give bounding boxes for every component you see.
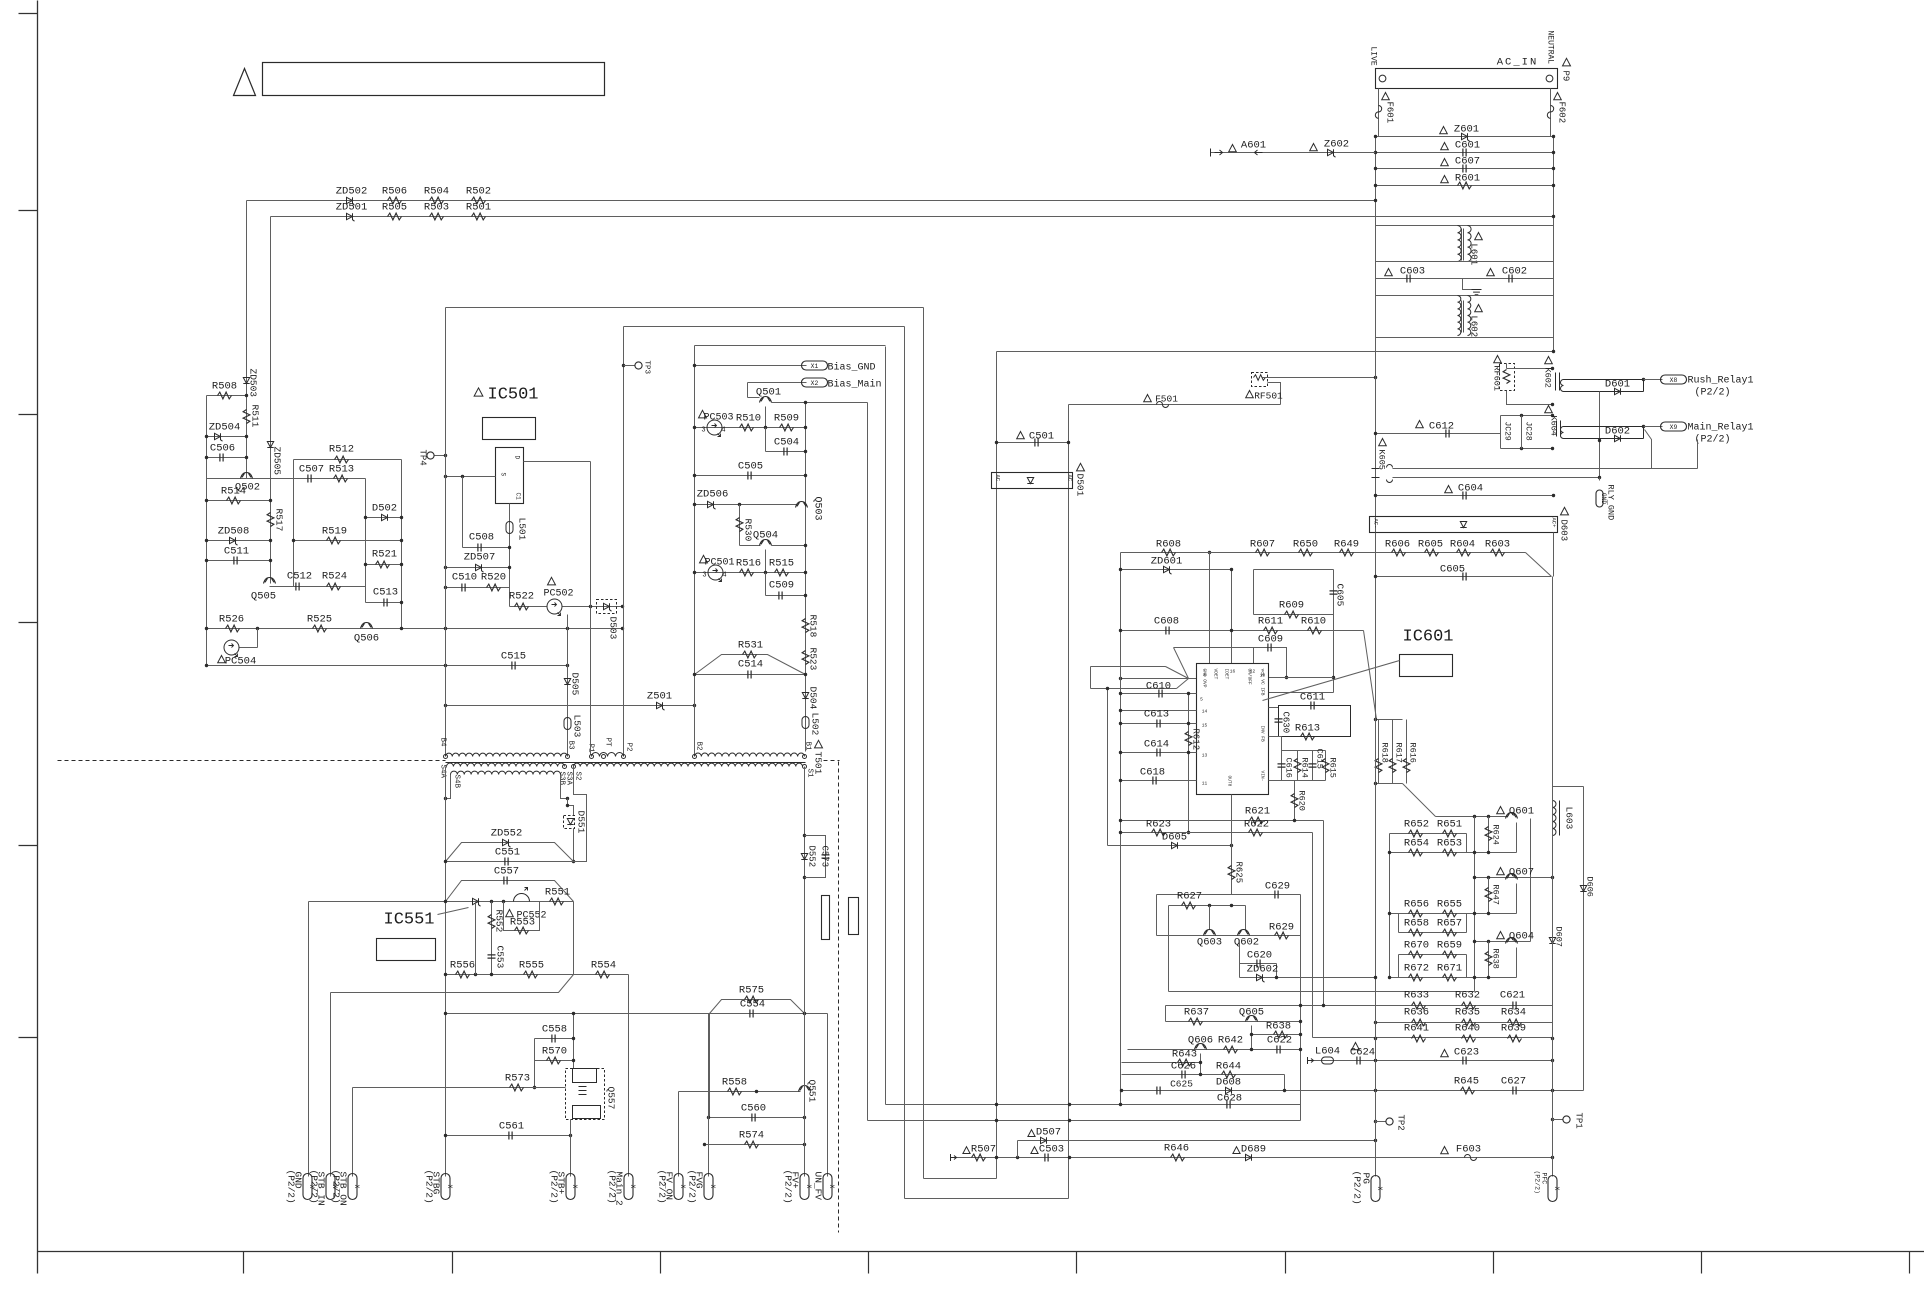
wire R508 row	[207, 395, 247, 397]
junction	[707, 1116, 710, 1119]
resistor R615	[1322, 759, 1329, 773]
resistor R632	[1462, 1002, 1476, 1009]
junction	[1187, 692, 1190, 695]
diode D608	[1226, 1087, 1232, 1093]
wire D608 R645 C627 row	[1121, 1090, 1584, 1092]
pin circle	[803, 765, 807, 769]
capacitor C614	[1157, 749, 1160, 757]
note box	[263, 63, 605, 96]
junction	[1187, 831, 1190, 834]
svg-text:C510: C510	[452, 572, 477, 584]
svg-text:C503: C503	[1039, 1144, 1064, 1156]
diode D601	[1615, 388, 1621, 394]
junction	[764, 426, 767, 429]
zener ZD504	[215, 433, 223, 441]
capacitor C629	[1275, 891, 1278, 899]
svg-text:R639: R639	[1501, 1023, 1526, 1035]
capacitor C604	[1463, 492, 1466, 500]
svg-text:(P2/2): (P2/2)	[1695, 387, 1731, 399]
svg-text:C613: C613	[1144, 709, 1169, 721]
resistor R647	[1485, 888, 1492, 902]
svg-text:R647: R647	[1491, 885, 1501, 905]
transistor Q605	[1246, 1016, 1258, 1022]
svg-text:R513: R513	[329, 464, 354, 476]
svg-text:R502: R502	[466, 186, 491, 198]
winding T501 primary P1-P2	[592, 753, 624, 757]
transistor Q606	[1195, 1044, 1207, 1050]
wire	[1375, 262, 1377, 296]
test point TP4	[427, 452, 434, 459]
transistor Q601	[1506, 813, 1518, 819]
resistor R516	[740, 569, 754, 576]
junction	[1374, 1021, 1377, 1024]
svg-text:R612: R612	[1191, 729, 1201, 751]
capacitor C573	[822, 855, 830, 858]
wire ZD504 row	[207, 436, 247, 438]
svg-text:R530: R530	[743, 519, 754, 542]
wire	[1553, 338, 1555, 352]
wire C505 row	[695, 475, 806, 477]
capacitor C505	[748, 472, 751, 480]
junction	[205, 627, 208, 630]
wire R638 row	[1252, 1034, 1301, 1036]
resistor R511	[243, 410, 250, 424]
resistor R607	[1256, 549, 1270, 556]
wire Q606 emitter	[1200, 1054, 1202, 1075]
wire K605 top row	[1393, 468, 1698, 470]
junction	[1374, 718, 1377, 721]
L602 core	[1461, 301, 1463, 333]
svg-text:R633: R633	[1404, 990, 1429, 1002]
capacitor C501	[1035, 439, 1038, 447]
svg-text:C612: C612	[1429, 421, 1454, 433]
capacitor C626	[1182, 1071, 1185, 1079]
wire R530 branch	[739, 505, 741, 534]
wire bus x996	[996, 352, 998, 1179]
wire row y1198	[905, 1198, 1069, 1200]
capacitor C554	[750, 1010, 753, 1018]
svg-text:R611: R611	[1258, 616, 1283, 628]
wire ZD503 column	[246, 396, 248, 479]
resistor R649	[1340, 549, 1354, 556]
svg-text:ZD506: ZD506	[697, 489, 729, 501]
junction	[1119, 677, 1122, 680]
resistor R575	[745, 996, 759, 1003]
wire C573 loop	[805, 836, 826, 878]
diode D551	[567, 819, 573, 825]
svg-text:(P2/2): (P2/2)	[1695, 434, 1731, 446]
wire Main_2 column	[628, 975, 630, 1177]
resistor R642	[1224, 1046, 1238, 1053]
warning triangle Q601	[1497, 807, 1505, 814]
svg-text:12: 12	[1250, 669, 1256, 675]
wire R551 row	[309, 901, 574, 903]
svg-text:Bias_Main: Bias_Main	[828, 379, 882, 391]
svg-text:VDET: VDET	[1213, 669, 1219, 680]
wire C603 C602 row	[1376, 278, 1554, 280]
wire FVG column	[708, 1118, 710, 1177]
svg-text:Q506: Q506	[354, 633, 379, 645]
svg-text:Q605: Q605	[1239, 1007, 1264, 1019]
junction	[1119, 568, 1122, 571]
wire FV_ON column	[678, 1092, 680, 1177]
wire ZD601 to chip	[1231, 570, 1233, 664]
wire x1323	[1323, 821, 1325, 1006]
svg-text:R672: R672	[1404, 963, 1429, 975]
capacitor C503	[1045, 1154, 1048, 1162]
wire C561 row	[446, 1135, 571, 1137]
svg-text:L604: L604	[1315, 1046, 1340, 1058]
svg-text:Q504: Q504	[753, 530, 778, 542]
zener ZD505	[267, 442, 273, 448]
wire Q606 row	[1128, 1049, 1301, 1051]
wire C510 R520 row	[446, 587, 510, 589]
svg-text:R608: R608	[1156, 539, 1181, 551]
svg-text:ZD602: ZD602	[1247, 964, 1279, 976]
junction	[804, 426, 807, 429]
fuse F501	[1157, 402, 1169, 408]
svg-text:4: 4	[721, 427, 725, 435]
wire OUT column	[1231, 795, 1233, 895]
junction	[1551, 414, 1554, 417]
wire C511 row	[207, 560, 271, 562]
border tick left	[19, 622, 38, 624]
resistor R558	[728, 1088, 742, 1095]
svg-text:R519: R519	[322, 526, 347, 538]
winding L601 a	[1458, 226, 1462, 262]
wire bus x1068	[1068, 405, 1070, 1199]
wire C501 row	[997, 442, 1069, 444]
wire	[401, 460, 403, 629]
junction	[1388, 912, 1391, 915]
svg-text:C624: C624	[1350, 1047, 1375, 1059]
wire R672 row	[1390, 977, 1517, 979]
svg-text:X: X	[629, 1185, 636, 1189]
svg-text:Q604: Q604	[1509, 931, 1534, 943]
wire bus x1583	[1583, 787, 1585, 1091]
inductor L501	[506, 522, 513, 534]
svg-text:R553: R553	[510, 917, 535, 929]
wire FVG upper column	[709, 1014, 711, 1118]
svg-text:R634: R634	[1501, 1007, 1526, 1019]
warning triangle T501	[815, 740, 823, 748]
warning triangle C601	[1441, 143, 1449, 150]
svg-text:D: D	[514, 456, 521, 460]
junction	[566, 627, 569, 630]
wire	[1553, 1119, 1563, 1121]
junction	[1283, 1089, 1286, 1092]
svg-text:K602: K602	[1543, 368, 1553, 388]
wire D602 to K605 row	[1645, 430, 1698, 469]
junction	[1250, 1033, 1253, 1036]
wire top link	[1553, 786, 1584, 788]
wire R652 row	[1390, 833, 1467, 835]
svg-text:R653: R653	[1437, 838, 1462, 850]
resistor R519	[327, 537, 341, 544]
wire F601 drop	[1378, 89, 1380, 137]
warning triangle D507	[1028, 1130, 1035, 1137]
svg-text:R509: R509	[774, 413, 799, 425]
wire S2 bypass	[574, 767, 587, 862]
wire C605 row	[1376, 576, 1552, 578]
ground	[1472, 290, 1482, 295]
svg-text:C506: C506	[210, 443, 235, 455]
funnel diag top	[1174, 648, 1189, 679]
wire	[573, 902, 575, 975]
svg-text:R551: R551	[545, 887, 570, 899]
warning triangle C604	[1445, 486, 1453, 493]
connector X2 Bias_Main	[802, 378, 828, 387]
resistor R605	[1425, 549, 1439, 556]
wire bus x1552	[1552, 577, 1554, 1177]
svg-text:C1: C1	[515, 493, 522, 501]
svg-text:R512: R512	[329, 444, 354, 456]
svg-text:X: X	[1376, 1187, 1383, 1191]
svg-text:R552: R552	[494, 910, 505, 933]
svg-text:Q601: Q601	[1509, 806, 1534, 818]
svg-text:X: X	[828, 1185, 835, 1189]
resistor R503	[430, 213, 444, 220]
wire R633 row	[1166, 1005, 1553, 1007]
svg-text:R618: R618	[1380, 743, 1390, 763]
svg-text:R655: R655	[1437, 899, 1462, 911]
wire vc row	[1269, 692, 1334, 694]
svg-text:OUT8: OUT8	[1227, 776, 1233, 787]
junction	[205, 435, 208, 438]
capacitor C508	[478, 544, 481, 552]
resistor R505	[388, 213, 402, 220]
junction	[1551, 1059, 1554, 1062]
wire	[1168, 906, 1170, 992]
svg-text:R523: R523	[808, 648, 819, 671]
svg-text:Bias_GND: Bias_GND	[828, 362, 876, 374]
wire	[1376, 1121, 1386, 1123]
junction	[566, 664, 569, 667]
wire STB_IN trace	[331, 975, 574, 993]
capacitor C506	[220, 454, 223, 462]
junction	[1374, 976, 1377, 979]
junction	[572, 860, 575, 863]
junction	[1551, 367, 1554, 370]
svg-text:R650: R650	[1293, 539, 1318, 551]
resistor R502	[472, 197, 486, 204]
wire R556 row	[446, 974, 574, 976]
wire R609 row	[1254, 614, 1334, 616]
wire R514 row	[207, 500, 271, 502]
wire	[747, 383, 749, 398]
resistor R656	[1409, 910, 1423, 917]
wire	[1239, 964, 1241, 978]
wire	[748, 397, 760, 399]
capacitor C623	[1463, 1057, 1466, 1065]
svg-text:C551: C551	[495, 847, 520, 859]
svg-text:F501: F501	[1155, 394, 1178, 405]
warning triangle L601	[1475, 233, 1483, 240]
capacitor C616	[1278, 764, 1286, 767]
svg-text:RLY_GND: RLY_GND	[1606, 485, 1616, 521]
svg-text:R518: R518	[808, 615, 819, 638]
warning triangle RF501	[1246, 391, 1254, 398]
connector RLY_GND	[1596, 490, 1603, 507]
diode D689	[1246, 1154, 1252, 1160]
winding T501 primary B2-B1	[694, 753, 804, 756]
warning triangle Q607	[1497, 868, 1505, 875]
junction	[693, 571, 696, 574]
wire C614 row	[1121, 752, 1197, 754]
svg-text:D601: D601	[1605, 379, 1630, 391]
callout line IC601	[1263, 661, 1400, 701]
svg-text:C514: C514	[738, 659, 763, 671]
test point TP1	[1563, 1116, 1570, 1123]
wire S3A to D551	[568, 799, 574, 816]
zener ZD552	[503, 839, 511, 847]
terminal R507 row	[951, 1154, 957, 1161]
wire ZD551 column	[475, 902, 477, 975]
wire R512 row	[294, 459, 402, 461]
wire	[1406, 720, 1408, 784]
svg-text:3: 3	[701, 427, 705, 435]
svg-text:R622: R622	[1244, 819, 1269, 831]
junction	[1299, 1033, 1302, 1036]
wire trio top	[1376, 719, 1403, 721]
pin circle live	[1379, 75, 1386, 82]
wire Q501 collector row	[772, 402, 868, 404]
svg-text:11: 11	[1202, 781, 1208, 787]
IC IC601 body	[1197, 664, 1269, 795]
wire choke bottom	[1376, 261, 1554, 263]
junction	[803, 1143, 806, 1146]
resistor R655	[1443, 910, 1457, 917]
resistor RF501 element	[1254, 375, 1266, 381]
svg-text:C558: C558	[542, 1024, 567, 1036]
resistor R573	[510, 1084, 524, 1091]
connector PFC	[1548, 1176, 1557, 1202]
wire	[1553, 262, 1555, 296]
junction	[1119, 819, 1122, 822]
junction	[1374, 1120, 1377, 1123]
wire	[1156, 895, 1158, 936]
svg-text:R615: R615	[1328, 758, 1338, 778]
svg-text:R531: R531	[738, 640, 763, 652]
junction	[1642, 378, 1645, 381]
capacitor C507	[308, 475, 311, 483]
capacitor C615	[1309, 764, 1317, 767]
svg-text:R646: R646	[1164, 1143, 1189, 1155]
capacitor C511	[234, 557, 237, 565]
junction	[1473, 876, 1476, 879]
wire x1333	[1333, 615, 1335, 693]
wire left rail	[1375, 137, 1377, 226]
wire collector bus x1530	[1530, 819, 1532, 942]
arrester A601	[1211, 149, 1263, 157]
svg-text:UN_FV: UN_FV	[813, 1172, 824, 1201]
photocoupler PC552 arc	[514, 888, 530, 902]
svg-text:JC28: JC28	[1524, 422, 1533, 441]
isolation dashed vertical	[838, 762, 840, 1233]
resistor R672	[1409, 974, 1423, 981]
svg-text:R658: R658	[1404, 918, 1429, 930]
wire F501 AC row	[1069, 404, 1281, 406]
warning triangle C612	[1416, 421, 1424, 428]
wire	[293, 460, 295, 587]
warning triangle C607	[1441, 159, 1449, 166]
wire lower box top	[1376, 337, 1554, 339]
junction	[1332, 676, 1335, 679]
svg-text:B3: B3	[567, 741, 575, 751]
svg-text:D504: D504	[808, 687, 819, 710]
resistor R620	[1291, 794, 1298, 808]
svg-text:AC: AC	[1067, 475, 1074, 482]
svg-text:R604: R604	[1450, 539, 1475, 551]
resistor R637	[1189, 1018, 1203, 1025]
junction	[693, 426, 696, 429]
wire C613 row	[1121, 723, 1197, 725]
bridge D603 box	[1370, 517, 1558, 533]
warning triangle F603	[1441, 1147, 1449, 1154]
junction	[804, 474, 807, 477]
junction	[569, 1134, 572, 1137]
wire	[1245, 906, 1247, 930]
junction	[621, 627, 624, 630]
wire ground stub	[1463, 279, 1473, 290]
svg-text:Q557: Q557	[606, 1087, 617, 1110]
junction	[205, 539, 208, 542]
capacitor C504	[784, 448, 787, 456]
resistor R552	[488, 915, 495, 929]
resistor R504	[430, 197, 444, 204]
junction	[444, 900, 447, 903]
svg-text:D605: D605	[1162, 832, 1187, 844]
border tick bottom	[660, 1252, 662, 1274]
wire x534 column	[534, 1039, 536, 1088]
svg-text:R601: R601	[1455, 173, 1480, 185]
border left line	[37, 1, 39, 1274]
junction	[1285, 676, 1288, 679]
resistor R601	[1458, 182, 1472, 189]
resistor R627	[1182, 902, 1196, 909]
border tick bottom	[243, 1252, 245, 1274]
junction	[1642, 425, 1645, 428]
wire Q501 emitter	[765, 407, 767, 428]
resistor R509	[780, 424, 794, 431]
svg-text:X: X	[353, 1185, 360, 1189]
svg-text:4: 4	[1203, 673, 1206, 679]
resistor R622	[1249, 829, 1263, 836]
svg-text:R507: R507	[971, 1144, 996, 1156]
svg-text:NEUTRAL: NEUTRAL	[1546, 31, 1555, 65]
junction	[1187, 751, 1190, 754]
warning triangle Z601	[1440, 127, 1448, 134]
junction	[803, 1116, 806, 1119]
wire STB_IN column	[330, 993, 332, 1177]
border tick left	[19, 13, 38, 15]
svg-text:R638: R638	[1266, 1021, 1291, 1033]
junction	[205, 456, 208, 459]
resistor R621	[1250, 817, 1264, 824]
warning triangle A601	[1229, 145, 1237, 152]
svg-text:R640: R640	[1455, 1023, 1480, 1035]
inductor L503	[564, 718, 571, 730]
wire	[240, 647, 258, 649]
svg-text:C614: C614	[1144, 739, 1169, 751]
junction	[1374, 184, 1377, 187]
junction	[1552, 167, 1555, 170]
wire	[1521, 416, 1523, 449]
junction	[1374, 494, 1377, 497]
svg-text:S3B: S3B	[558, 772, 566, 786]
wire	[1506, 364, 1508, 369]
svg-text:D602: D602	[1605, 426, 1630, 438]
